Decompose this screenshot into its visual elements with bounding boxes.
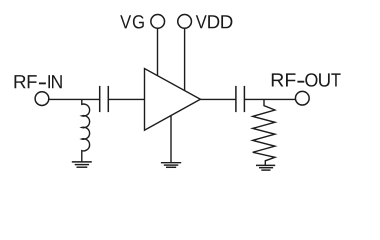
wire C2 to RF-OUT terminal, junction at node B (x=264) xyxy=(244,98,295,100)
capacitor C1 xyxy=(100,86,109,112)
wire C1 to amplifier input xyxy=(108,98,144,100)
op-amp U1 (amplifier triangle) xyxy=(145,69,201,131)
resistor R1 xyxy=(253,99,275,165)
label RF-IN xyxy=(14,75,61,88)
wire VG stem xyxy=(157,29,159,76)
ground (under R1) xyxy=(256,165,275,170)
terminal VG xyxy=(151,15,165,29)
label VDD xyxy=(196,15,233,28)
wire amplifier source stem xyxy=(170,116,172,163)
capacitor C2 xyxy=(236,86,245,112)
label VG xyxy=(120,15,144,28)
inductor L1 xyxy=(82,99,90,161)
label RF-OUT xyxy=(272,73,341,86)
ground (under L1) xyxy=(72,162,92,167)
wire VDD stem xyxy=(184,29,186,91)
wire amplifier output to C2 xyxy=(200,98,236,100)
terminal RF-IN xyxy=(35,92,49,106)
terminal RF-OUT xyxy=(295,91,309,105)
ground (under amplifier) xyxy=(161,163,181,168)
terminal VDD xyxy=(178,15,192,29)
wire input: terminal to C1, junction at node A (x=82) xyxy=(50,98,100,100)
